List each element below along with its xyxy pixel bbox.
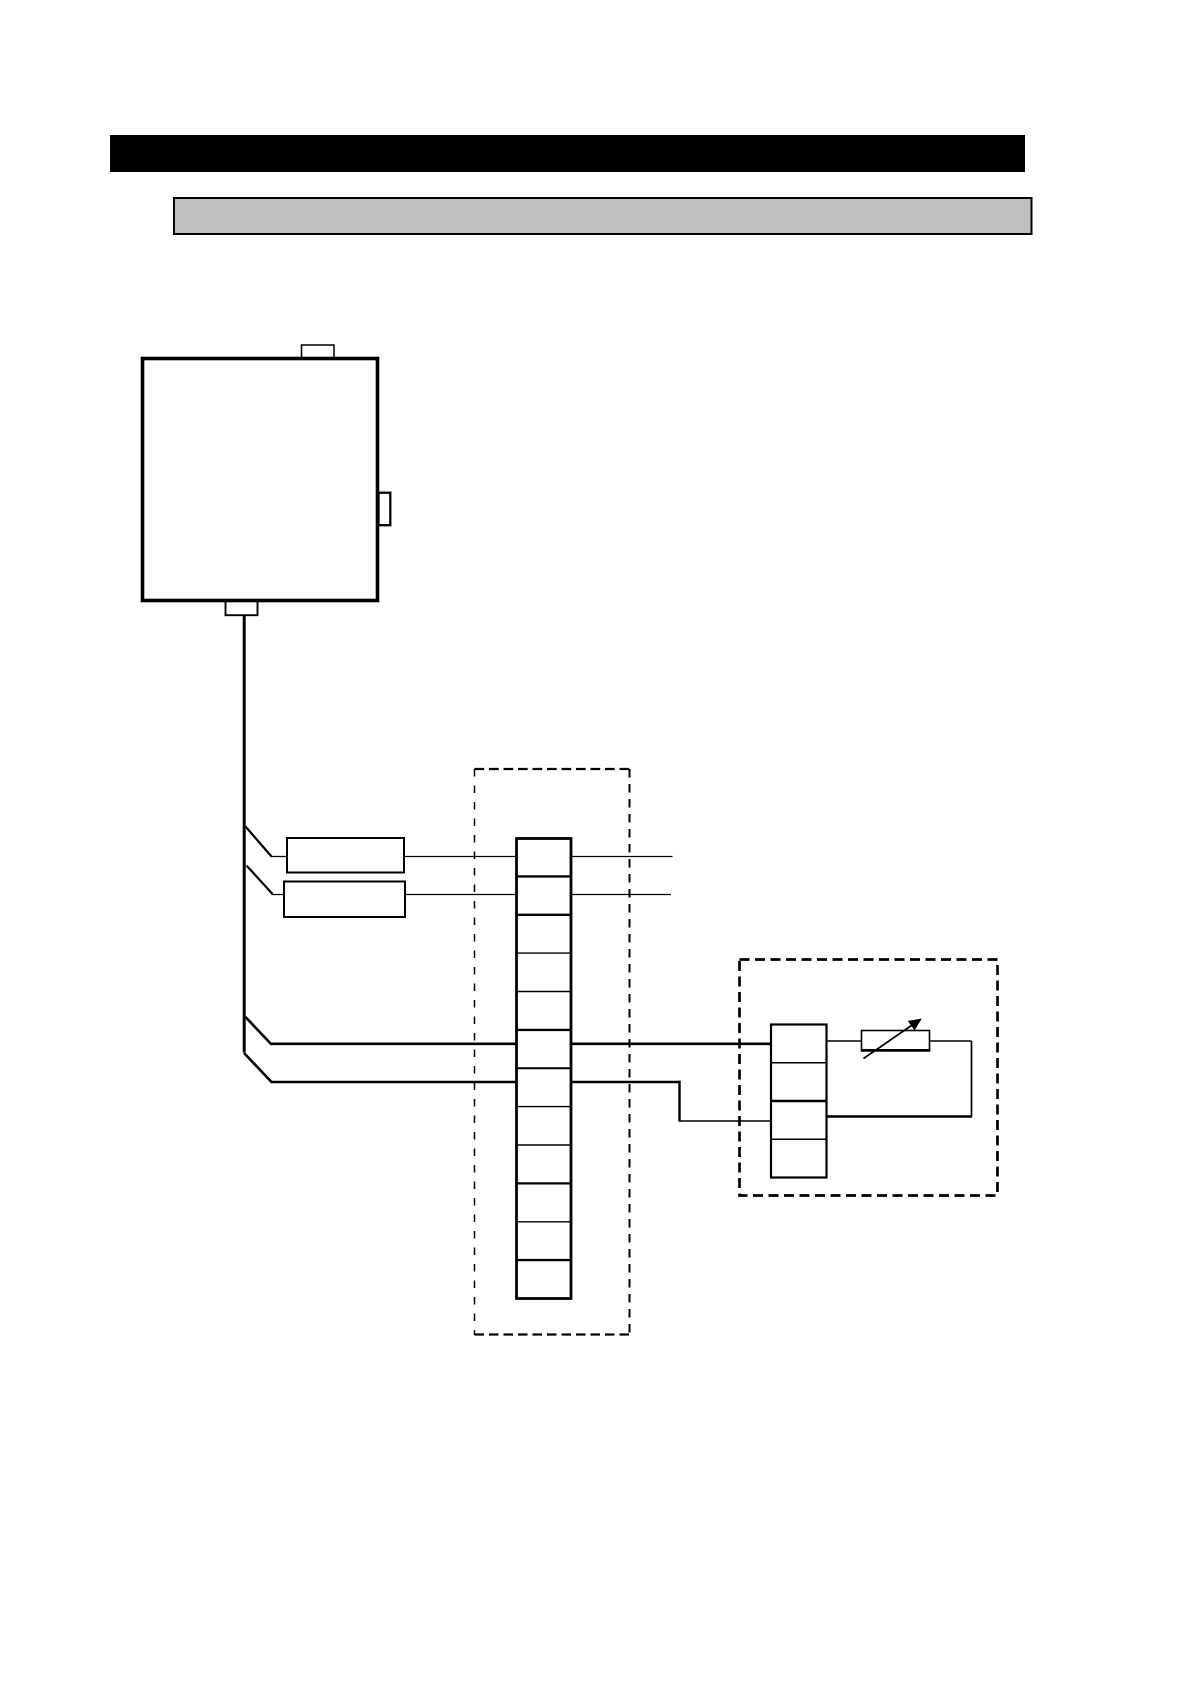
terminal block enclosure (dashed) (475, 769, 631, 1335)
wire D (thick, from cable through terminal 7) (271, 1081, 680, 1084)
device box U1 (143, 359, 378, 601)
wire connector pin1 to resistor (827, 1040, 862, 1042)
variable resistor arrow shaft (864, 1026, 912, 1059)
wire A (thin, from cable to terminal 1) (271, 856, 673, 858)
device box top tab (302, 345, 335, 358)
wire resistor to loop corner (930, 1040, 972, 1042)
wire branch diagonal B (247, 866, 273, 895)
variable resistor R1 bottom edge (thick) (861, 1049, 931, 1052)
label box 2 (284, 882, 405, 918)
loop wire bottom (to connector pin 3) (827, 1115, 973, 1117)
device box bottom tab (226, 601, 258, 615)
device box right tab (379, 493, 391, 526)
wire C (thick, from cable to terminal 6 and connector pin 1) (270, 1043, 771, 1046)
remote unit enclosure (dashed) (740, 960, 998, 1196)
wire branch diagonal C (246, 1017, 272, 1044)
loop wire right vertical (971, 1041, 973, 1117)
title bar (black) (110, 135, 1025, 172)
wire branch diagonal A (246, 827, 272, 857)
variable resistor R1 body (862, 1031, 930, 1051)
terminal block TB1 (12 cells) (517, 839, 572, 1299)
label box 1 (287, 838, 404, 873)
subtitle bar (gray) (174, 198, 1032, 234)
connector J1 (4 cells) (771, 1025, 827, 1178)
wire D vertical drop (678, 1081, 680, 1121)
variable resistor arrowhead (908, 1019, 922, 1031)
wire B (thin, from cable to terminal 2) (272, 894, 672, 896)
cable W1 (vertical from device box) (243, 615, 246, 1053)
wire D thin run to connector pin 3 (679, 1120, 771, 1122)
wire branch diagonal D (244, 1053, 272, 1082)
